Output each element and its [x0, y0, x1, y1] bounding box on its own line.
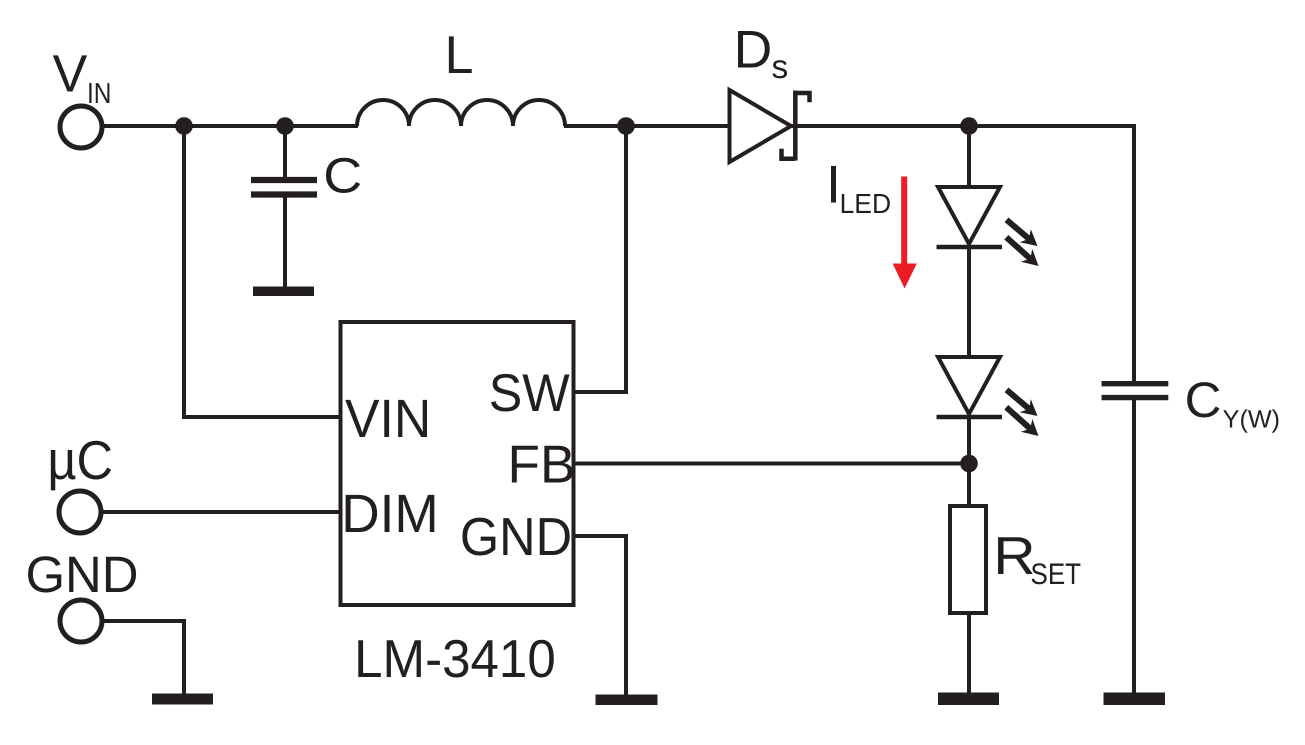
svg-text:V: V: [53, 45, 88, 103]
svg-text:µC: µC: [47, 429, 113, 491]
svg-text:SET: SET: [1031, 558, 1082, 591]
svg-text:s: s: [772, 49, 789, 86]
svg-text:Y(W): Y(W): [1223, 406, 1280, 434]
svg-text:LED: LED: [840, 188, 892, 219]
svg-text:IN: IN: [87, 78, 111, 110]
svg-text:SW: SW: [489, 364, 570, 423]
svg-text:C: C: [1185, 372, 1222, 428]
svg-text:R: R: [993, 527, 1035, 586]
svg-text:C: C: [323, 148, 362, 204]
svg-text:DIM: DIM: [341, 484, 438, 544]
svg-text:GND: GND: [25, 546, 138, 603]
svg-text:VIN: VIN: [345, 389, 431, 449]
svg-text:GND: GND: [460, 508, 572, 567]
svg-text:L: L: [445, 26, 474, 85]
svg-text:LM-3410: LM-3410: [354, 630, 556, 689]
svg-text:FB: FB: [508, 435, 576, 494]
svg-text:D: D: [734, 21, 773, 80]
